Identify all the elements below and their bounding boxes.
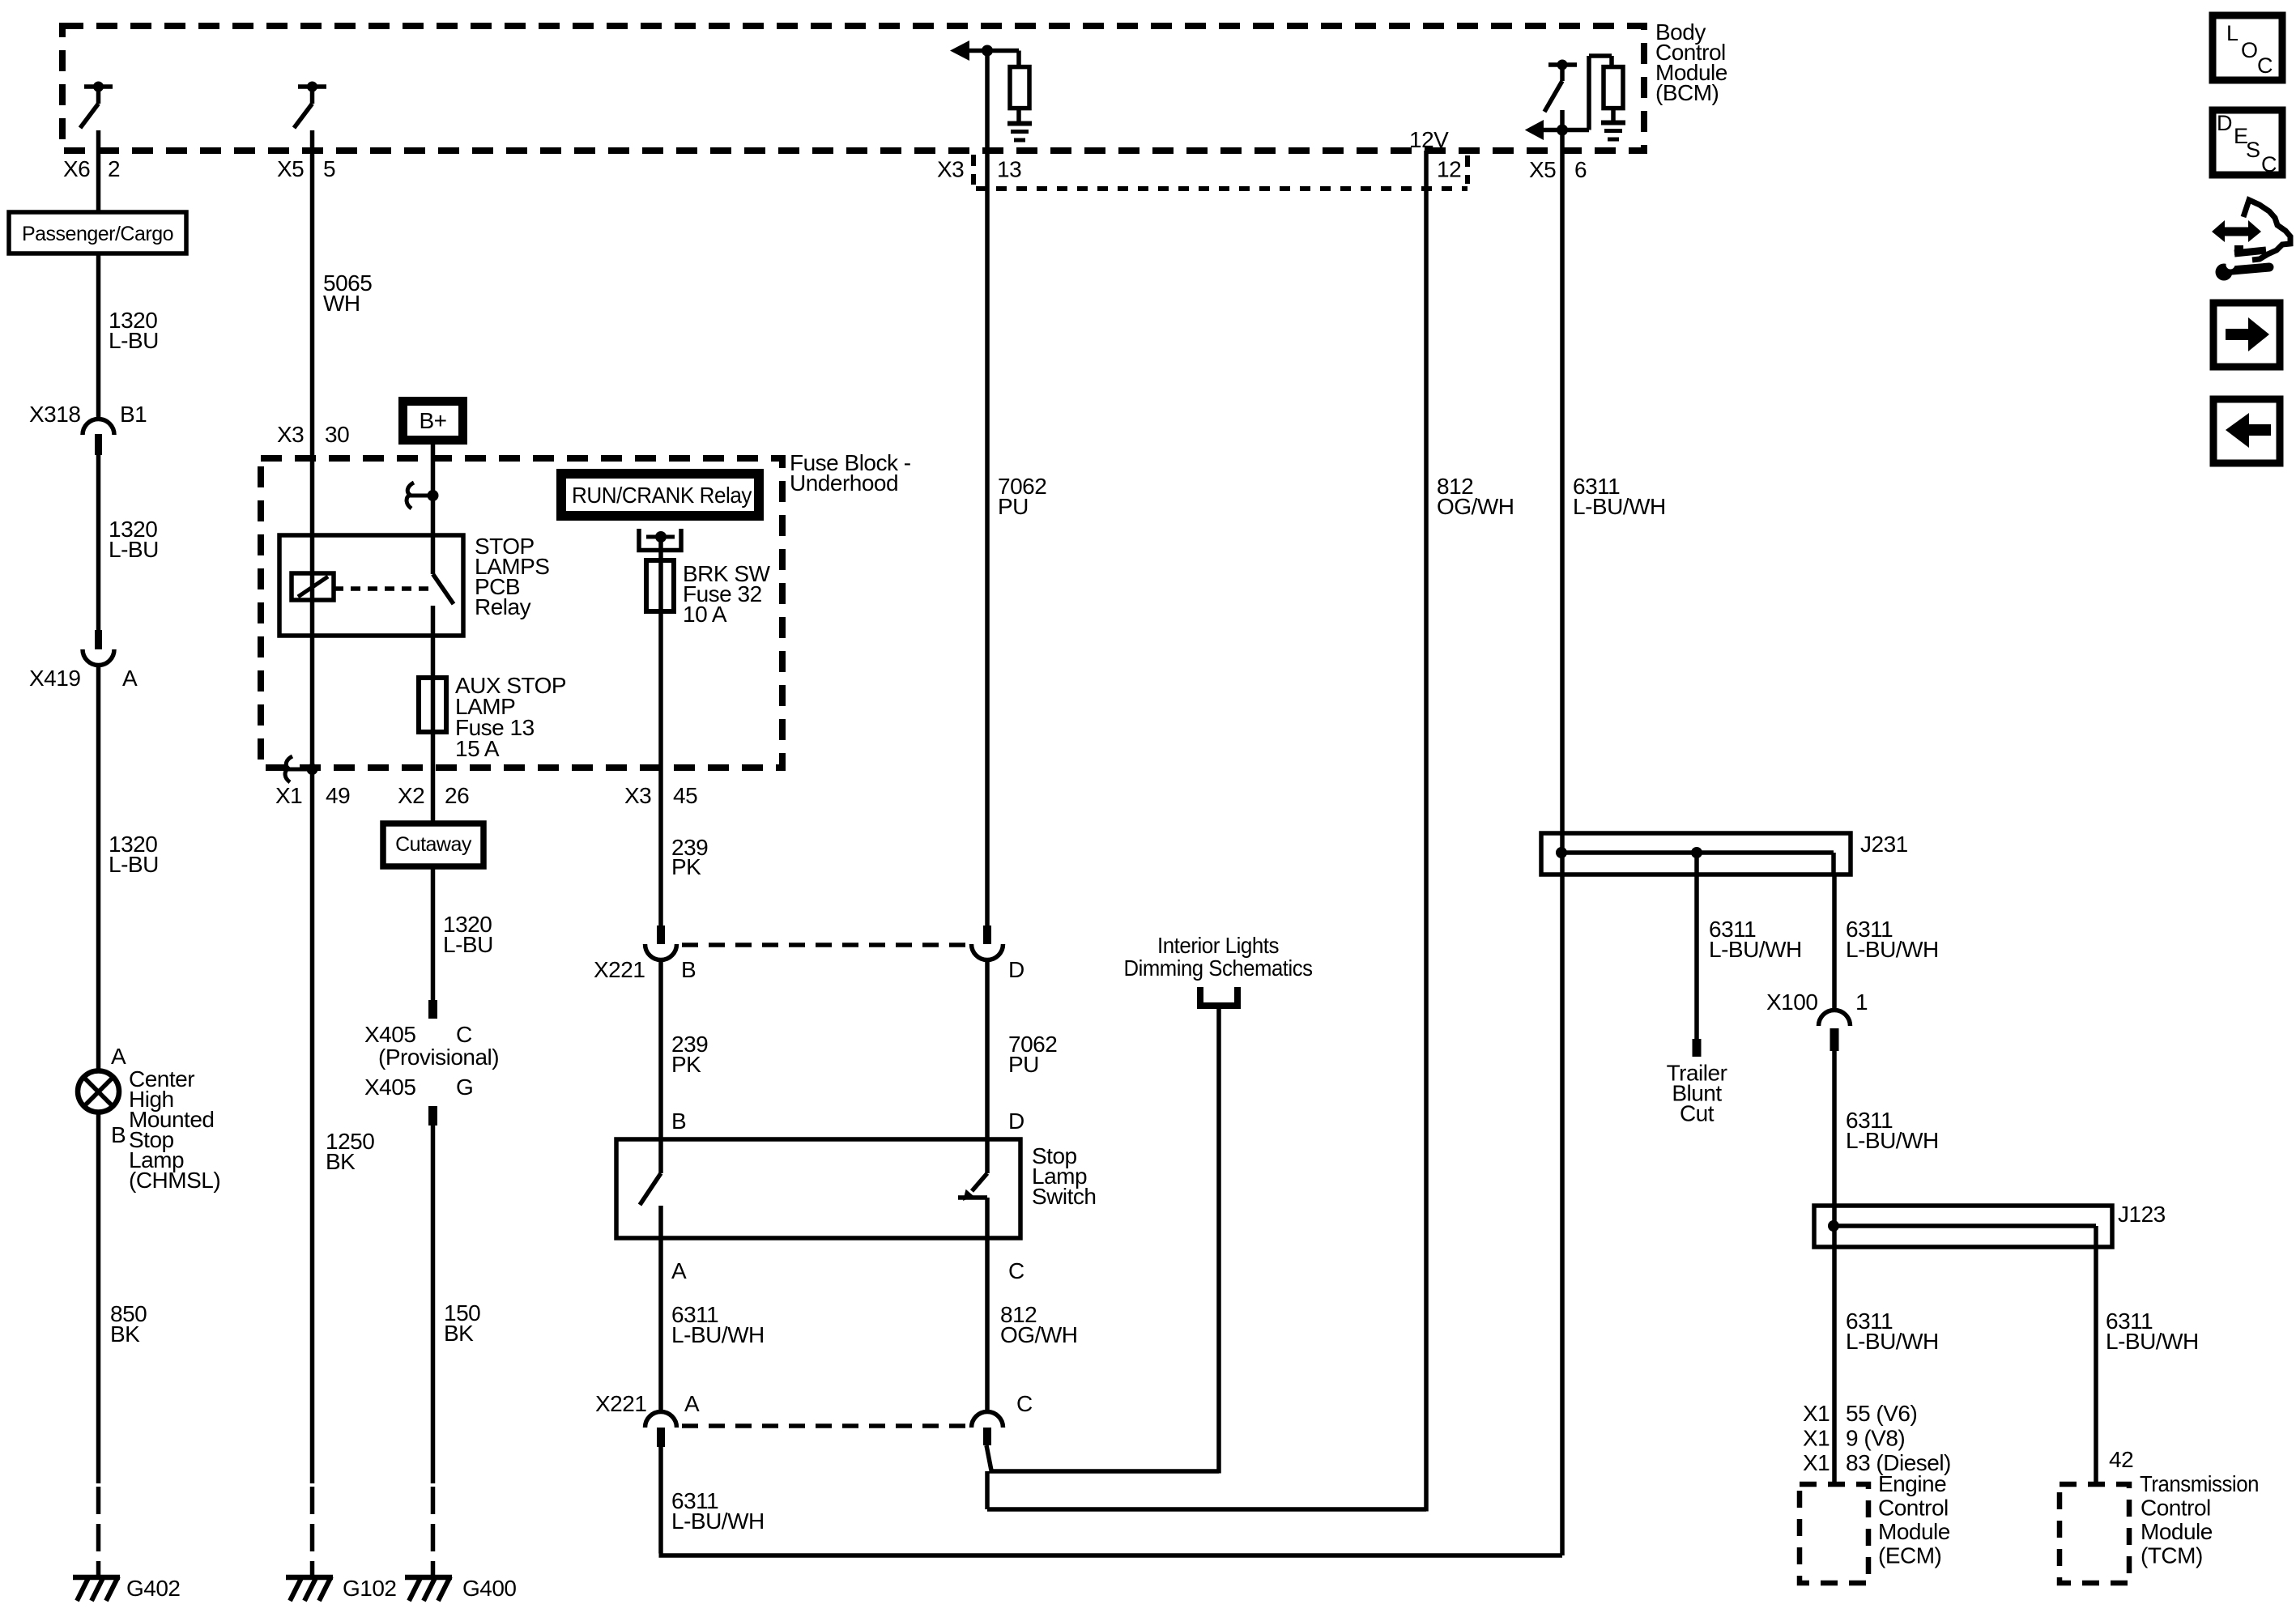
svg-text:X5: X5 <box>1529 157 1556 182</box>
svg-text:X405: X405 <box>364 1022 415 1047</box>
svg-text:Relay: Relay <box>475 594 531 619</box>
svg-text:X221: X221 <box>594 957 645 982</box>
svg-text:Engine: Engine <box>1878 1471 1946 1496</box>
svg-text:BK: BK <box>444 1321 474 1346</box>
svg-text:X6: X6 <box>63 156 90 181</box>
svg-text:X3: X3 <box>277 422 304 447</box>
svg-text:G102: G102 <box>343 1576 397 1601</box>
svg-text:X1: X1 <box>1803 1426 1830 1451</box>
svg-text:C: C <box>2261 152 2277 177</box>
svg-text:L-BU/WH: L-BU/WH <box>1709 937 1802 962</box>
svg-text:L: L <box>2226 21 2238 45</box>
svg-text:X318: X318 <box>29 402 80 427</box>
svg-text:X1: X1 <box>1803 1401 1830 1426</box>
svg-text:C: C <box>1016 1391 1033 1416</box>
svg-text:O: O <box>2241 38 2258 62</box>
svg-text:Cutaway: Cutaway <box>395 833 472 856</box>
svg-text:Control: Control <box>2141 1496 2211 1521</box>
svg-text:30: 30 <box>325 422 349 447</box>
svg-text:PU: PU <box>998 494 1029 519</box>
svg-text:13: 13 <box>997 157 1021 182</box>
svg-text:Control: Control <box>1878 1496 1949 1521</box>
svg-text:L-BU: L-BU <box>109 852 159 877</box>
svg-text:B+: B+ <box>419 408 446 433</box>
svg-text:L-BU: L-BU <box>443 932 493 957</box>
svg-text:Module: Module <box>2141 1519 2213 1544</box>
svg-text:(ECM): (ECM) <box>1878 1543 1941 1568</box>
svg-text:X2: X2 <box>398 783 424 808</box>
svg-text:B: B <box>681 957 696 982</box>
svg-text:2: 2 <box>108 156 120 181</box>
svg-text:X3: X3 <box>937 157 964 182</box>
svg-text:L-BU/WH: L-BU/WH <box>2106 1329 2199 1354</box>
svg-text:D: D <box>1008 1108 1024 1134</box>
svg-text:L-BU/WH: L-BU/WH <box>1573 494 1666 519</box>
svg-text:55 (V6): 55 (V6) <box>1846 1401 1917 1426</box>
svg-text:12V: 12V <box>1409 127 1449 152</box>
svg-text:(Provisional): (Provisional) <box>378 1045 499 1070</box>
svg-text:G400: G400 <box>462 1576 517 1601</box>
svg-text:WH: WH <box>323 291 360 316</box>
svg-text:PU: PU <box>1008 1052 1039 1077</box>
svg-text:L-BU/WH: L-BU/WH <box>1846 1128 1939 1153</box>
svg-text:G: G <box>456 1074 473 1100</box>
svg-text:C: C <box>1008 1258 1024 1283</box>
svg-text:Cut: Cut <box>1680 1101 1715 1126</box>
svg-text:Underhood: Underhood <box>790 470 898 496</box>
svg-text:26: 26 <box>445 783 469 808</box>
svg-text:PK: PK <box>671 854 701 879</box>
svg-text:A: A <box>122 666 138 691</box>
svg-text:X1: X1 <box>275 783 302 808</box>
svg-text:A: A <box>111 1044 126 1069</box>
svg-text:L-BU: L-BU <box>109 537 159 562</box>
svg-text:42: 42 <box>2109 1447 2133 1472</box>
svg-text:B: B <box>111 1122 126 1147</box>
svg-text:C: C <box>456 1022 472 1047</box>
svg-text:X3: X3 <box>624 783 651 808</box>
svg-text:12: 12 <box>1437 157 1461 182</box>
svg-text:X221: X221 <box>595 1391 646 1416</box>
svg-text:B: B <box>671 1108 686 1134</box>
svg-text:OG/WH: OG/WH <box>1437 494 1514 519</box>
svg-text:B1: B1 <box>120 402 147 427</box>
svg-text:Switch: Switch <box>1032 1184 1096 1209</box>
svg-text:L-BU/WH: L-BU/WH <box>1846 1329 1939 1354</box>
svg-text:C: C <box>2257 53 2273 78</box>
svg-text:5: 5 <box>323 156 335 181</box>
svg-text:RUN/CRANK Relay: RUN/CRANK Relay <box>572 483 752 508</box>
svg-text:D: D <box>1008 957 1024 982</box>
svg-text:L-BU/WH: L-BU/WH <box>1846 937 1939 962</box>
svg-text:A: A <box>684 1391 700 1416</box>
svg-text:15 A: 15 A <box>455 736 500 761</box>
svg-text:J123: J123 <box>2118 1202 2166 1227</box>
svg-text:9 (V8): 9 (V8) <box>1846 1426 1905 1451</box>
svg-text:BK: BK <box>326 1149 356 1174</box>
svg-text:J231: J231 <box>1860 832 1908 857</box>
svg-text:(TCM): (TCM) <box>2141 1543 2203 1568</box>
svg-text:BK: BK <box>110 1321 140 1347</box>
svg-text:S: S <box>2246 138 2260 162</box>
svg-text:Passenger/Cargo: Passenger/Cargo <box>22 223 173 245</box>
svg-text:Transmission: Transmission <box>2140 1471 2259 1496</box>
svg-text:G402: G402 <box>126 1576 181 1601</box>
svg-text:A: A <box>671 1258 687 1283</box>
svg-text:6: 6 <box>1574 157 1587 182</box>
svg-text:10 A: 10 A <box>683 602 727 627</box>
svg-text:PK: PK <box>671 1052 701 1077</box>
svg-text:1: 1 <box>1855 989 1868 1015</box>
svg-text:D: D <box>2217 111 2232 135</box>
svg-text:X405: X405 <box>364 1074 415 1100</box>
svg-text:45: 45 <box>673 783 697 808</box>
svg-text:Dimming Schematics: Dimming Schematics <box>1124 955 1313 981</box>
svg-text:L-BU/WH: L-BU/WH <box>671 1322 765 1347</box>
svg-text:L-BU: L-BU <box>109 328 159 353</box>
svg-text:(CHMSL): (CHMSL) <box>129 1168 220 1193</box>
svg-text:(BCM): (BCM) <box>1655 80 1719 105</box>
svg-text:L-BU/WH: L-BU/WH <box>671 1508 765 1534</box>
svg-text:X5: X5 <box>277 156 304 181</box>
svg-text:X1: X1 <box>1803 1450 1830 1475</box>
svg-text:49: 49 <box>326 783 350 808</box>
svg-text:Interior Lights: Interior Lights <box>1157 933 1279 958</box>
svg-text:OG/WH: OG/WH <box>1000 1322 1078 1347</box>
svg-text:Module: Module <box>1878 1519 1950 1544</box>
svg-text:X100: X100 <box>1766 989 1817 1015</box>
svg-text:X419: X419 <box>29 666 80 691</box>
